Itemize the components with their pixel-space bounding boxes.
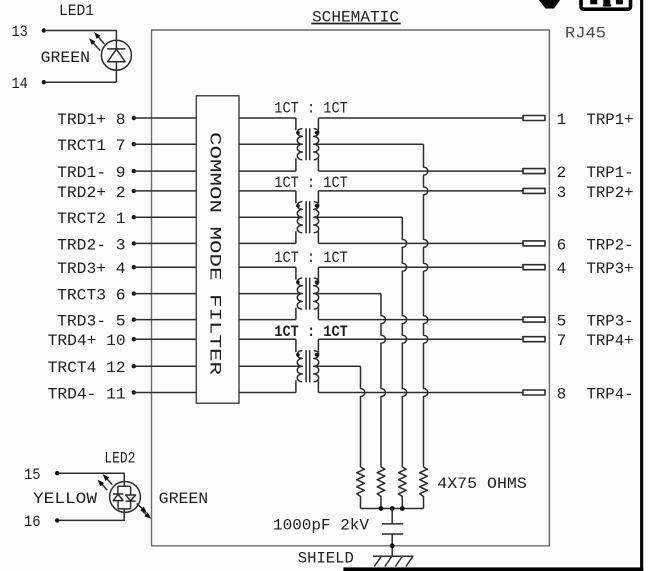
transformer T1 primary phase dot — [296, 131, 300, 135]
transformer T4 primary winding — [296, 339, 302, 392]
pin 16 terminal dot — [55, 518, 59, 522]
svg-text:16: 16 — [24, 513, 41, 531]
wire TRD4+ 10 to filter — [134, 338, 197, 340]
wire T4 secondary bottom to pad — [318, 392, 523, 394]
transformer T3 secondary phase dot — [315, 280, 319, 284]
svg-text:TRD3- 5: TRD3- 5 — [57, 313, 126, 331]
resistor R3 (75 ohm) — [398, 467, 406, 509]
pad 4 (TRP3+) — [523, 265, 545, 270]
wire T2 secondary bottom to pad — [318, 242, 523, 244]
chassis ground (shield) symbol — [373, 556, 414, 566]
transformer T3 core — [306, 278, 310, 310]
wire T1 secondary bottom to pad — [318, 170, 523, 172]
wire filter to T3 primary top — [239, 266, 296, 268]
transformer T1 primary winding — [296, 118, 302, 171]
svg-text:1000pF 2kV: 1000pF 2kV — [273, 517, 369, 535]
terminal dot row TRD1- 9 — [132, 169, 136, 173]
wire T4 CT drop to resistor (with hops) — [361, 366, 365, 467]
svg-text:TRD4- 11: TRD4- 11 — [48, 386, 126, 404]
wire T1 secondary CT — [317, 143, 424, 145]
wire TRD4- 11 to filter — [134, 392, 197, 394]
wire TRCT1 7 to filter — [134, 143, 197, 145]
transformer T2 primary phase dot — [296, 204, 300, 208]
svg-text:1CT : 1CT: 1CT : 1CT — [274, 323, 348, 341]
wire filter to T2 primary bottom — [239, 242, 296, 244]
svg-text:5: 5 — [557, 313, 567, 331]
wire filter to T1 primary CT — [239, 143, 301, 145]
wire T4 secondary top to pad — [318, 338, 523, 340]
svg-text:TRCT1 7: TRCT1 7 — [57, 137, 126, 155]
svg-text:TRP1-: TRP1- — [587, 164, 634, 182]
pad 7 (TRP4+) — [523, 337, 545, 342]
wire pin14 to LED1 cathode — [44, 81, 117, 83]
wire pin15 to LED2 — [57, 473, 124, 486]
wire T4 secondary CT — [317, 365, 361, 367]
pad 2 (TRP1-) — [523, 169, 545, 174]
wire filter to T4 primary bottom — [239, 392, 296, 394]
svg-text:TRD2+ 2: TRD2+ 2 — [57, 184, 126, 202]
wire bus to capacitor — [391, 509, 393, 524]
wire filter to T3 primary bottom — [239, 319, 296, 321]
svg-text:TRP4-: TRP4- — [587, 386, 634, 404]
svg-text:RJ45: RJ45 — [565, 25, 606, 43]
terminal dot row TRD1+ 8 — [132, 116, 136, 120]
wire TRD1+ 8 to filter — [134, 117, 197, 119]
svg-text:2: 2 — [557, 164, 567, 182]
transformer T2 core — [306, 201, 310, 233]
transformer T1 secondary phase dot — [315, 131, 319, 135]
resistor R2 (75 ohm) — [377, 467, 385, 509]
svg-text:7: 7 — [557, 332, 567, 350]
svg-text:4: 4 — [557, 260, 567, 278]
wire filter to T4 primary top — [239, 338, 296, 340]
svg-text:TRP2-: TRP2- — [587, 236, 634, 254]
transformer T2 primary winding — [296, 191, 302, 244]
wire T1 secondary top to pad — [318, 117, 523, 119]
wire T2 secondary top to pad — [318, 190, 523, 192]
wire filter to T2 primary CT — [239, 216, 301, 218]
page border right — [640, 0, 643, 571]
transformer T4 core — [306, 350, 310, 382]
wire T3 secondary CT — [317, 293, 382, 295]
wire T2 secondary CT — [317, 216, 403, 218]
terminal dot row TRCT4 12 — [132, 364, 136, 368]
resistor R4 (75 ohm) — [420, 467, 428, 509]
wire TRCT2 1 to filter — [134, 216, 197, 218]
wire T1 CT drop to resistor (with hops) — [424, 144, 428, 467]
svg-text:YELLOW: YELLOW — [33, 490, 97, 508]
wire pin13 to LED1 anode — [44, 31, 117, 41]
wire resistor common bus — [361, 508, 424, 510]
svg-text:TRD2- 3: TRD2- 3 — [57, 236, 126, 254]
svg-text:TRD3+ 4: TRD3+ 4 — [57, 260, 126, 278]
svg-text:COMMON MODE FILTER: COMMON MODE FILTER — [206, 132, 224, 376]
transformer T2 secondary phase dot — [315, 204, 319, 208]
svg-text:3: 3 — [557, 184, 567, 202]
wire filter to T1 primary bottom — [239, 170, 296, 172]
LED LED2 bicolor symbol — [110, 482, 141, 513]
svg-text:4X75 OHMS: 4X75 OHMS — [437, 475, 527, 493]
junction dot bus center — [390, 506, 395, 511]
common mode filter box U1 — [196, 96, 239, 403]
svg-text:TRD4+ 10: TRD4+ 10 — [48, 332, 126, 350]
wire TRCT3 6 to filter — [134, 293, 197, 295]
svg-text:TRP3+: TRP3+ — [587, 260, 634, 278]
wire TRD2+ 2 to filter — [134, 190, 197, 192]
svg-text:LED1: LED1 — [59, 2, 94, 20]
resistor R1 (75 ohm) — [357, 467, 365, 509]
wire filter to T4 primary CT — [239, 365, 301, 367]
schematic box outline — [152, 30, 550, 546]
transformer T4 primary phase dot — [296, 353, 300, 357]
junction dot on box bottom edge — [390, 543, 395, 548]
pin 14 terminal dot — [42, 80, 46, 84]
svg-text:1CT : 1CT: 1CT : 1CT — [274, 249, 348, 267]
terminal dot row TRD3+ 4 — [132, 265, 136, 269]
pad 3 (TRP2+) — [523, 188, 545, 193]
wire T3 CT drop to resistor (with hops) — [381, 294, 385, 467]
wire T2 CT drop to resistor (with hops) — [402, 217, 406, 467]
svg-text:1CT : 1CT: 1CT : 1CT — [274, 174, 348, 192]
terminal dot row TRD2- 3 — [132, 241, 136, 245]
terminal dot row TRCT3 6 — [132, 291, 136, 295]
terminal dot row TRCT1 7 — [132, 142, 136, 146]
wire filter to T1 primary top — [239, 117, 296, 119]
icon RJ45 jack (cropped) — [581, 0, 631, 9]
svg-text:TRCT4 12: TRCT4 12 — [48, 359, 126, 377]
pin 15 terminal dot — [55, 471, 59, 475]
terminal dot row TRD3- 5 — [132, 317, 136, 321]
wire filter to T3 primary CT — [239, 293, 301, 295]
svg-text:TRD1- 9: TRD1- 9 — [57, 164, 126, 182]
svg-text:GREEN: GREEN — [41, 49, 90, 67]
transformer T4 secondary phase dot — [315, 353, 319, 357]
wire capacitor to shield — [391, 535, 393, 557]
svg-text:GREEN: GREEN — [159, 490, 208, 508]
transformer T3 primary winding — [296, 267, 302, 319]
LED2 emission arrows upper — [98, 474, 113, 490]
svg-text:TRCT3 6: TRCT3 6 — [57, 287, 126, 305]
svg-text:LED2: LED2 — [104, 449, 135, 467]
capacitor C1 plates — [382, 524, 403, 534]
pad 1 (TRP1+) — [523, 116, 545, 121]
svg-text:TRD1+ 8: TRD1+ 8 — [57, 111, 126, 129]
junction dot bus right — [400, 506, 405, 511]
transformer T4 secondary winding — [314, 339, 319, 392]
title SCHEMATIC — [311, 8, 400, 26]
svg-text:14: 14 — [12, 75, 28, 93]
terminal dot row TRD4- 11 — [132, 390, 136, 394]
wire TRD1- 9 to filter — [134, 170, 197, 172]
wire LED2 to pin16 — [57, 509, 124, 521]
terminal dot row TRD4+ 10 — [132, 337, 136, 341]
transformer T3 primary phase dot — [296, 280, 300, 284]
wire filter to T2 primary top — [239, 190, 296, 192]
svg-text:SHIELD: SHIELD — [298, 549, 354, 567]
transformer T2 secondary winding — [314, 191, 319, 244]
svg-text:1: 1 — [557, 111, 567, 129]
svg-text:1CT : 1CT: 1CT : 1CT — [274, 100, 348, 118]
LED2 emission arrows lower — [137, 503, 152, 519]
pad 5 (TRP3-) — [523, 317, 545, 322]
terminal dot row TRCT2 1 — [132, 215, 136, 219]
transformer T3 secondary winding — [314, 267, 319, 319]
wire TRCT4 12 to filter — [134, 365, 197, 367]
LED1 emission arrows — [89, 32, 105, 51]
junction dot bus left — [379, 506, 384, 511]
transformer T1 secondary winding — [314, 118, 319, 171]
wire TRD3+ 4 to filter — [134, 266, 197, 268]
svg-text:13: 13 — [12, 23, 28, 41]
pad 8 (TRP4-) — [523, 390, 545, 395]
svg-text:TRP2+: TRP2+ — [587, 184, 634, 202]
svg-text:8: 8 — [557, 386, 567, 404]
wire T3 secondary top to pad — [318, 266, 523, 268]
svg-text:6: 6 — [557, 236, 567, 254]
wire TRD2- 3 to filter — [134, 242, 197, 244]
svg-text:TRP4+: TRP4+ — [587, 332, 634, 350]
svg-text:15: 15 — [24, 466, 41, 484]
svg-text:TRP3-: TRP3- — [587, 313, 634, 331]
pad 6 (TRP2-) — [523, 241, 545, 246]
page border bottom — [343, 567, 643, 571]
LED LED1 symbol — [101, 40, 131, 82]
svg-text:TRP1+: TRP1+ — [587, 111, 634, 129]
transformer T1 core — [306, 128, 310, 160]
wire T3 secondary bottom to pad — [318, 319, 523, 321]
pin 13 terminal dot — [42, 28, 46, 32]
wire TRD3- 5 to filter — [134, 319, 197, 321]
svg-text:TRCT2 1: TRCT2 1 — [57, 210, 126, 228]
terminal dot row TRD2+ 2 — [132, 189, 136, 193]
icon arrow marker (cropped) — [539, 0, 560, 9]
